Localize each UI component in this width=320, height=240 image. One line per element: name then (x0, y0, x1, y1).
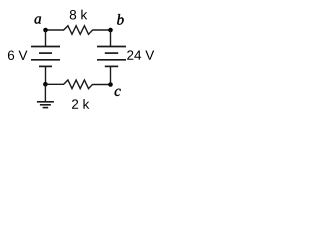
value label 2 k (72, 99, 89, 109)
value label 8 k (70, 10, 87, 20)
value label 6 V (8, 50, 28, 60)
wire: bottom left segment from ground junction to resistor (45, 83, 64, 85)
battery V2 (24 V source, two cells) (97, 47, 126, 67)
junction dot (bottom left, ground node) (43, 82, 48, 87)
wire: left vertical from node a down to 6 V source (45, 30, 47, 47)
value label 24 V (127, 50, 154, 59)
node a (junction dot) (43, 28, 48, 33)
resistor 2 k (bottom, between ground junction and node c) (64, 80, 93, 89)
wire: right vertical from node b down to 24 V source (110, 30, 112, 47)
wire: top right segment from resistor to node b (92, 29, 110, 31)
node c label (115, 89, 121, 96)
wire: right vertical from 24 V source down to node c (110, 66, 112, 84)
node a label (35, 16, 41, 23)
wire: top left segment from node a to resistor (46, 29, 65, 31)
node c (junction dot) (108, 82, 113, 87)
battery V1 (6 V source, two cells) (31, 47, 60, 67)
node b (junction dot) (108, 28, 113, 33)
wire: ground stub (44, 84, 46, 102)
wire: bottom right segment from resistor to node c (92, 84, 110, 86)
resistor 8 k (top, between nodes a and b) (64, 26, 93, 35)
node b label (117, 14, 123, 25)
ground (37, 102, 54, 108)
wire: left vertical from 6 V source down to ground junction (45, 66, 47, 84)
